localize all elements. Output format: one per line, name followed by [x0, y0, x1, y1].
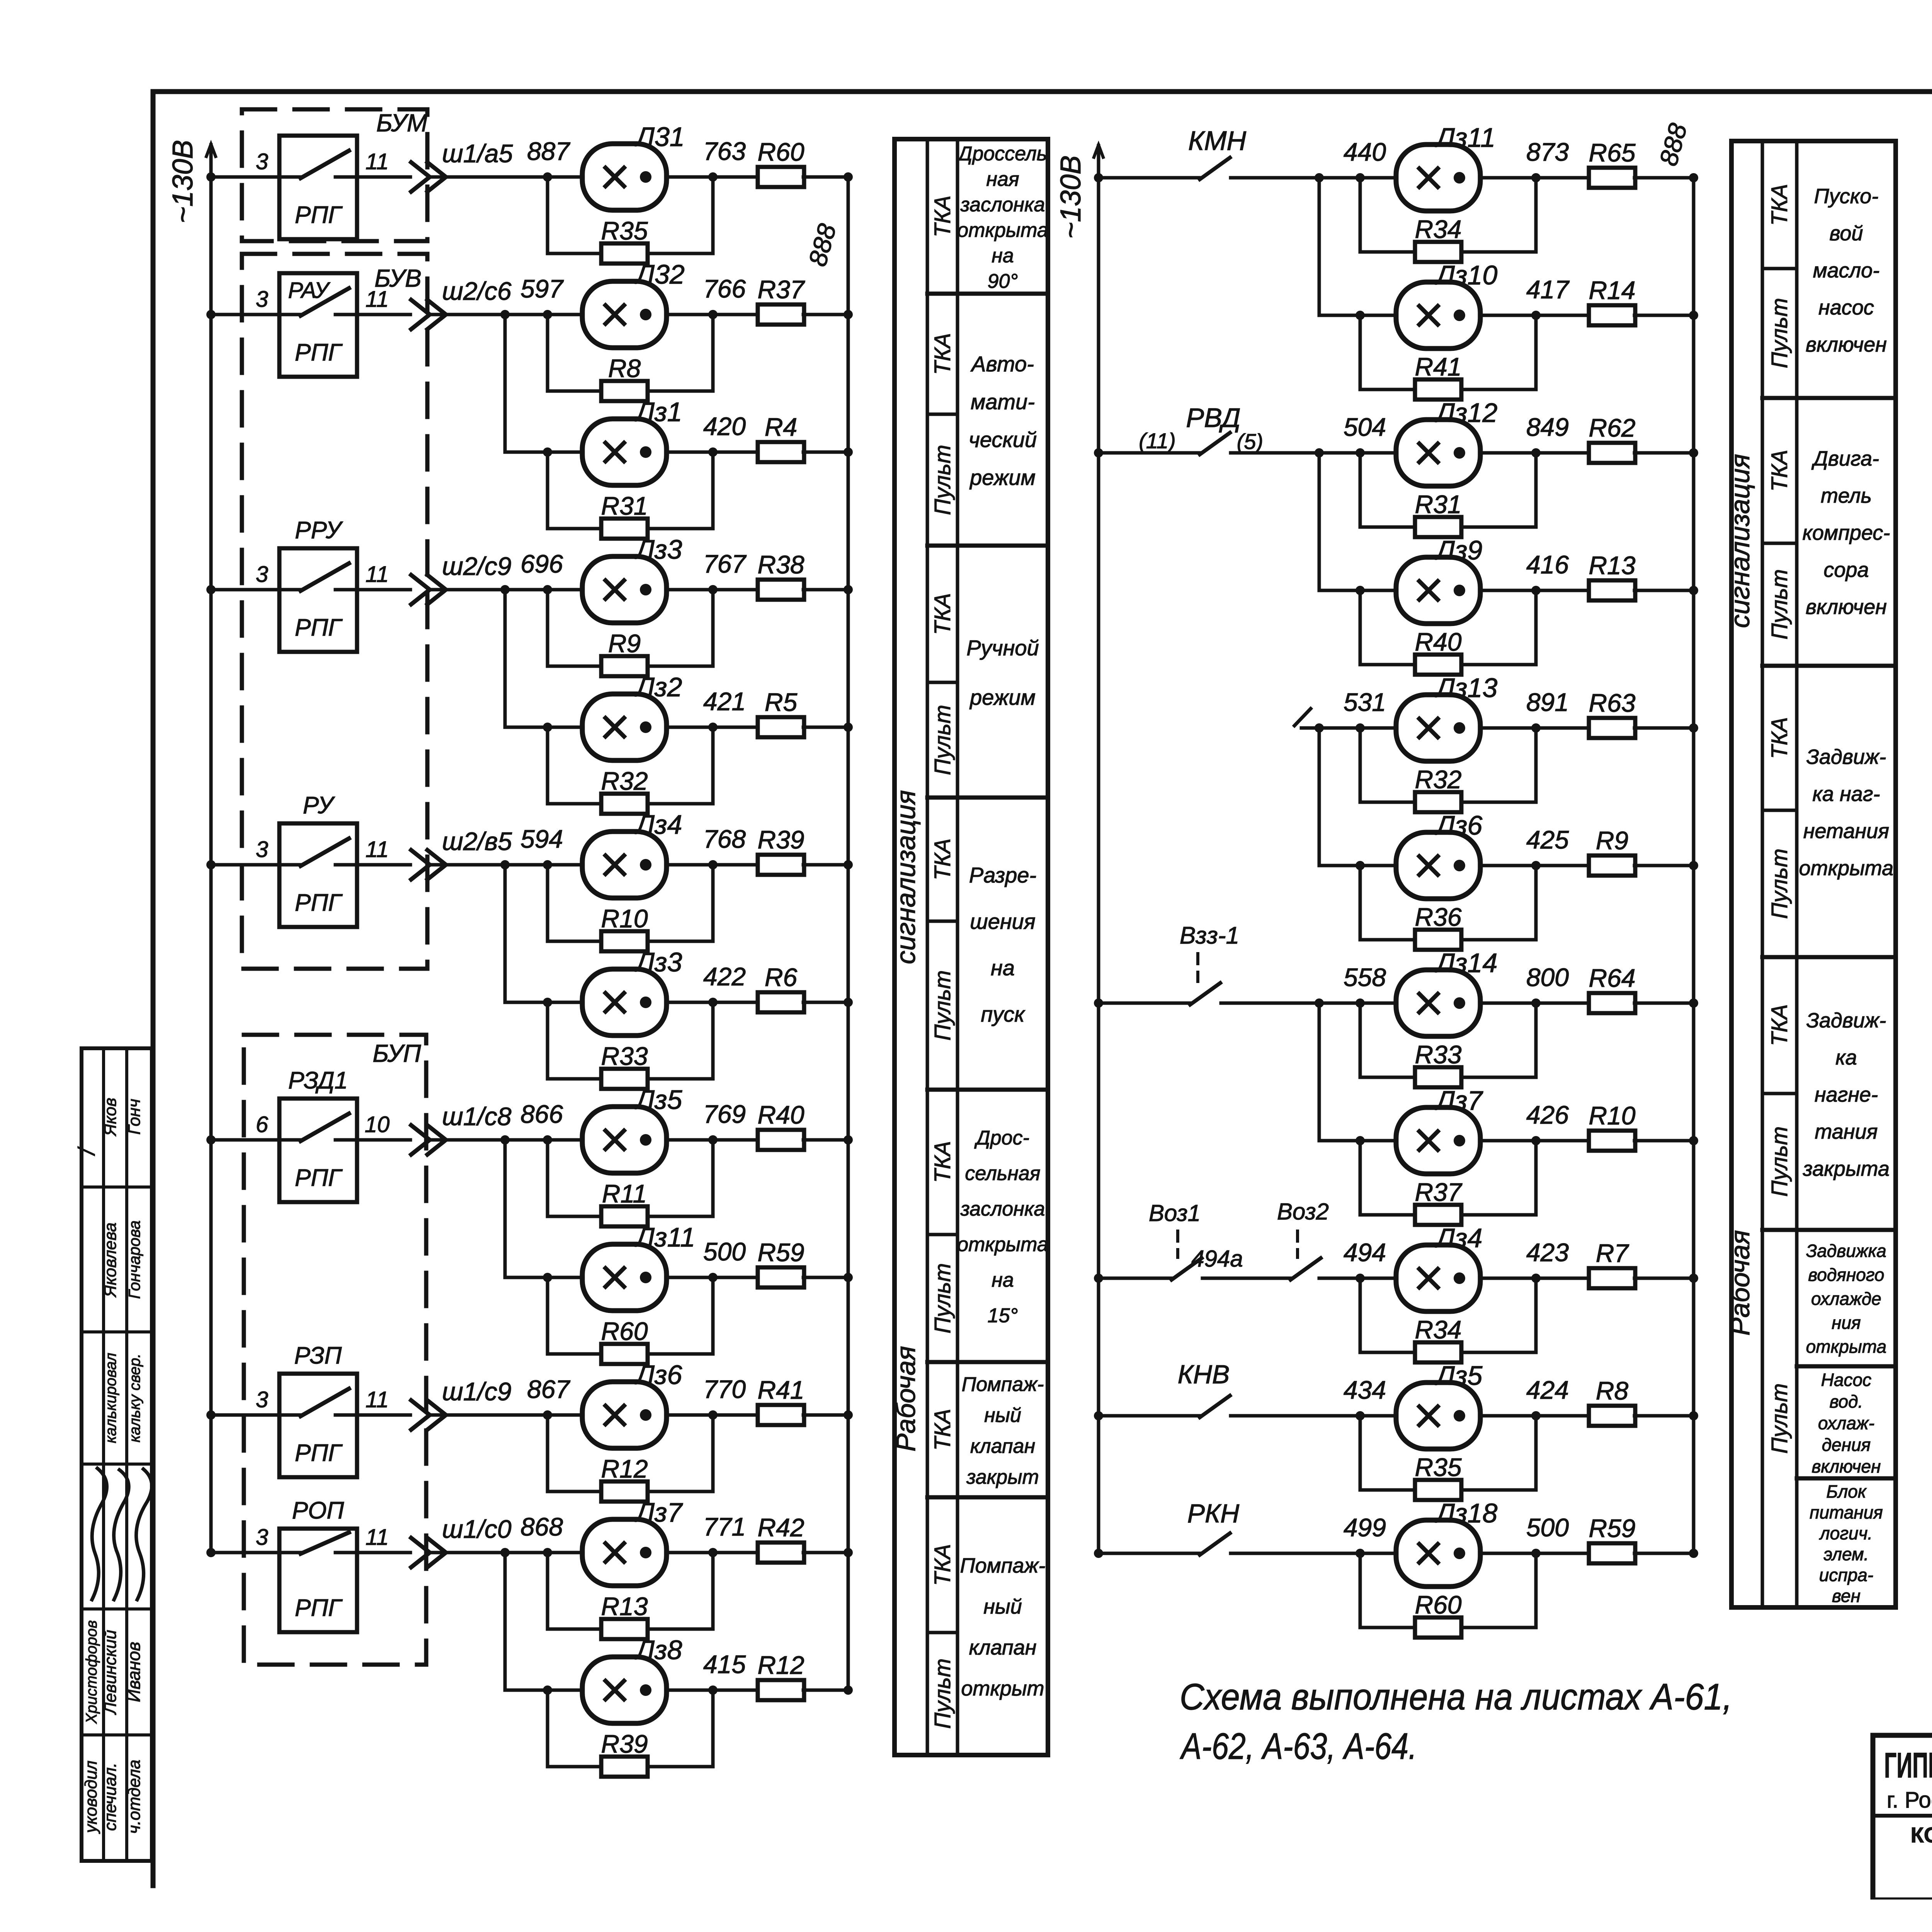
svg-text:закрыта: закрыта [1803, 1157, 1889, 1180]
svg-text:ш2/с9: ш2/с9 [442, 552, 512, 580]
svg-text:R60: R60 [601, 1317, 648, 1345]
resistor R35 parallel loop [1360, 1416, 1416, 1490]
svg-text:водяного: водяного [1808, 1265, 1884, 1285]
svg-text:R10: R10 [1588, 1101, 1635, 1130]
wire resistor to bus [803, 726, 848, 729]
svg-text:ТКА: ТКА [1767, 450, 1792, 492]
svg-text:РВД: РВД [1186, 403, 1240, 433]
svg-text:426: 426 [1526, 1100, 1569, 1129]
svg-text:90°: 90° [988, 270, 1018, 293]
left row Лз7: wires [211, 1551, 279, 1554]
svg-text:R33: R33 [601, 1042, 648, 1070]
signature squiggles [92, 1468, 107, 1600]
relay contact РУ [279, 823, 357, 927]
resistor R8 series [1589, 1406, 1635, 1426]
svg-text:R41: R41 [1415, 352, 1461, 381]
wire resistor to bus [803, 1413, 848, 1417]
svg-text:Лз18: Лз18 [1435, 1498, 1497, 1528]
resistor R36 parallel loop [1360, 866, 1416, 940]
svg-text:РЗД1: РЗД1 [288, 1067, 348, 1094]
svg-text:R11: R11 [602, 1179, 647, 1208]
svg-text:R60: R60 [757, 138, 804, 166]
svg-text:Лз5: Лз5 [1435, 1361, 1483, 1391]
svg-text:кальку свер.: кальку свер. [126, 1354, 143, 1442]
svg-text:режим: режим [969, 685, 1036, 709]
connector chevron ш2/в5 [411, 850, 430, 879]
svg-text:Христофоров: Христофоров [83, 1620, 100, 1724]
svg-text:11: 11 [366, 837, 389, 862]
svg-text:767: 767 [703, 549, 747, 578]
wire lamp to resistor [666, 1413, 759, 1417]
svg-text:3: 3 [256, 562, 268, 587]
wire lamp to resistor [666, 451, 759, 454]
junction node [1315, 173, 1324, 182]
svg-text:849: 849 [1526, 413, 1569, 441]
left row Лз2: wires [505, 726, 548, 729]
svg-text:ТКА: ТКА [930, 1544, 955, 1586]
resistor R34 parallel loop [1360, 178, 1416, 252]
svg-text:11: 11 [366, 562, 389, 587]
svg-text:ТКА: ТКА [930, 196, 955, 237]
wire lamp to resistor [1480, 1002, 1590, 1005]
svg-text:ш1/с9: ш1/с9 [442, 1377, 512, 1406]
svg-text:Левинский: Левинский [101, 1630, 120, 1715]
middle row Лз4: feed wiring [1094, 1274, 1103, 1283]
resistor R10 series [1589, 1131, 1635, 1151]
svg-text:компрес-: компрес- [1803, 521, 1890, 544]
lamp Лз1 [582, 419, 667, 485]
svg-text:охлаж-: охлаж- [1818, 1413, 1874, 1433]
wire drop to next row [1318, 453, 1321, 590]
junction node [1315, 448, 1324, 457]
svg-text:867: 867 [527, 1375, 570, 1403]
svg-text:ка: ка [1835, 1046, 1857, 1069]
svg-text:R64: R64 [1588, 964, 1635, 992]
svg-text:РПГ: РПГ [295, 1595, 343, 1621]
svg-text:868: 868 [520, 1512, 563, 1541]
switch RVD [1196, 451, 1200, 455]
svg-text:10: 10 [365, 1112, 390, 1137]
svg-text:Лз11: Лз11 [634, 1222, 695, 1252]
svg-text:R37: R37 [757, 275, 805, 304]
relay contact РРУ [279, 548, 357, 652]
resistor R40 series [758, 1130, 804, 1150]
wire resistor to bus [803, 1276, 848, 1279]
svg-text:Рабочая: Рабочая [891, 1346, 921, 1451]
svg-text:Задвижка: Задвижка [1806, 1241, 1886, 1261]
resistor R13 series [1589, 580, 1635, 600]
lamp Лз4 [582, 832, 667, 898]
svg-text:11: 11 [366, 149, 389, 174]
svg-text:R40: R40 [1415, 628, 1461, 656]
svg-text:769: 769 [703, 1100, 746, 1128]
svg-text:ш1/с0: ш1/с0 [442, 1515, 512, 1543]
resistor R59 series [758, 1267, 804, 1287]
svg-text:425: 425 [1526, 825, 1569, 854]
svg-text:500: 500 [703, 1237, 746, 1266]
left row Лз5: wires [211, 1138, 279, 1142]
wire drop to next row [503, 1140, 507, 1277]
svg-text:R12: R12 [601, 1454, 648, 1483]
wire lamp to resistor [666, 1001, 759, 1004]
left row Лз8: wires [505, 1689, 548, 1692]
svg-text:Двига-: Двига- [1811, 447, 1879, 470]
svg-text:Лз13: Лз13 [1435, 673, 1497, 703]
wire lamp to resistor [666, 726, 759, 729]
svg-text:~130В: ~130В [167, 140, 199, 223]
svg-text:тания: тания [1815, 1120, 1878, 1143]
svg-text:ТКА: ТКА [930, 1141, 955, 1183]
lamp Лз18 [1396, 1520, 1480, 1587]
resistor R33 parallel loop [1360, 1003, 1416, 1077]
svg-text:891: 891 [1526, 688, 1569, 716]
wire lamp to resistor [666, 313, 759, 316]
wire resistor to bus [1634, 314, 1694, 317]
middle row Лз11: feed wiring [1094, 173, 1103, 182]
junction node [500, 310, 510, 319]
svg-text:Пульт: Пульт [1767, 1383, 1792, 1454]
svg-text:R6: R6 [765, 963, 798, 992]
resistor R59 series [1589, 1543, 1635, 1563]
svg-text:421: 421 [703, 687, 746, 716]
svg-text:нетания: нетания [1803, 820, 1889, 843]
svg-text:открыта: открыта [957, 1233, 1048, 1256]
wire drop to next row [503, 1553, 507, 1690]
middle row Лз10: feed wiring [1319, 314, 1396, 317]
cell Пульт [1762, 542, 1797, 545]
svg-text:R7: R7 [1596, 1239, 1629, 1267]
svg-text:шения: шения [970, 909, 1036, 934]
resistor R31 parallel loop [1360, 453, 1416, 527]
wire lamp to resistor [1480, 314, 1590, 317]
lamp Лз11 [582, 1244, 667, 1311]
resistor R33 parallel loop [548, 1002, 602, 1079]
svg-text:Задвиж-: Задвиж- [1806, 1009, 1886, 1032]
svg-text:Л31: Л31 [634, 122, 685, 152]
svg-text:R33: R33 [1415, 1040, 1461, 1069]
cell Пульт [927, 413, 957, 416]
svg-text:Лз14: Лз14 [1435, 948, 1497, 978]
svg-text:открыта: открыта [957, 219, 1048, 241]
lamp Лз5 [582, 1107, 667, 1173]
wire resistor to bus [1634, 1002, 1694, 1005]
svg-text:531: 531 [1344, 688, 1386, 716]
connector chevron ш2/с6 [411, 300, 430, 329]
bus 888 middle [1692, 178, 1696, 1553]
cell Пульт [927, 1233, 957, 1236]
svg-text:597: 597 [520, 274, 564, 303]
dashed block BUP [244, 1035, 426, 1665]
middle row Лз7: feed wiring [1319, 1139, 1396, 1143]
svg-text:Лз5: Лз5 [634, 1085, 683, 1115]
svg-text:сора: сора [1823, 558, 1869, 582]
svg-text:Лз3: Лз3 [634, 534, 682, 565]
resistor R14 series [1589, 305, 1635, 325]
dashed block BUM [242, 109, 427, 241]
svg-text:Разре-: Разре- [969, 863, 1036, 887]
resistor R12 series [758, 1680, 804, 1700]
junction node [500, 1135, 510, 1145]
svg-text:R35: R35 [1415, 1453, 1461, 1481]
wire lamp to resistor [1480, 864, 1590, 867]
svg-text:Рабочая: Рабочая [1725, 1230, 1755, 1335]
svg-text:3: 3 [256, 1525, 268, 1550]
middle row Лз18: feed wiring [1094, 1549, 1103, 1558]
svg-text:ТКА: ТКА [1767, 1004, 1792, 1046]
svg-text:R12: R12 [757, 1651, 804, 1679]
svg-text:6: 6 [256, 1112, 269, 1137]
svg-text:тель: тель [1821, 484, 1872, 507]
svg-text:11: 11 [366, 287, 389, 312]
middle row Лз9: feed wiring [1319, 589, 1396, 592]
svg-text:элем.: элем. [1824, 1544, 1869, 1564]
svg-text:Авто-: Авто- [970, 352, 1034, 376]
cell Пульт [1762, 809, 1797, 812]
svg-text:R59: R59 [757, 1238, 804, 1267]
junction node [500, 1548, 510, 1557]
svg-text:РПГ: РПГ [295, 339, 343, 366]
svg-text:766: 766 [703, 274, 746, 303]
resistor R32 parallel loop [548, 727, 602, 804]
wire resistor to bus [1634, 726, 1694, 730]
svg-text:РПГ: РПГ [295, 1165, 343, 1191]
wire lamp to resistor [666, 1551, 759, 1554]
wire resistor to bus [1634, 176, 1694, 180]
wire lamp to resistor [666, 1689, 759, 1692]
svg-text:R32: R32 [1415, 765, 1461, 794]
svg-text:РУ: РУ [303, 792, 335, 819]
svg-text:424: 424 [1526, 1376, 1569, 1404]
resistor R32 parallel loop [1360, 728, 1416, 802]
power rail ~130V middle [1097, 178, 1100, 1553]
svg-text:R31: R31 [601, 492, 648, 520]
svg-text:Лз6: Лз6 [634, 1360, 682, 1390]
junction node [500, 860, 510, 869]
switch RKN [1196, 1552, 1200, 1555]
junction node [500, 585, 510, 594]
resistor R9 parallel loop [548, 590, 602, 666]
svg-text:R62: R62 [1588, 413, 1635, 442]
svg-text:ч.отдела: ч.отдела [125, 1760, 144, 1834]
svg-text:R4: R4 [765, 413, 797, 441]
svg-text:Лз11: Лз11 [1435, 122, 1495, 153]
middle row Лз6: feed wiring [1319, 864, 1396, 867]
resistor R42 series [758, 1543, 804, 1563]
relay contact РПГ [279, 136, 357, 239]
svg-text:открыт: открыт [961, 1677, 1044, 1700]
lamp Лз7 [582, 1519, 667, 1586]
svg-text:R59: R59 [1588, 1514, 1635, 1543]
switch Voz1 [1168, 1277, 1172, 1280]
svg-text:R35: R35 [601, 216, 648, 245]
svg-text:R31: R31 [1415, 490, 1461, 519]
switch Voz2 [1287, 1277, 1291, 1280]
svg-text:г. Ростов-на-Дону 1976г.: г. Ростов-на-Дону 1976г. [1887, 1787, 1932, 1813]
svg-text:494а: 494а [1191, 1246, 1243, 1272]
sheet border frame left [151, 92, 156, 1886]
svg-text:Помпаж-: Помпаж- [962, 1373, 1044, 1396]
resistor R6 series [758, 992, 804, 1012]
svg-text:3: 3 [256, 837, 268, 862]
svg-text:ния: ния [1832, 1313, 1861, 1333]
svg-text:заслонка: заслонка [960, 1198, 1045, 1220]
wire resistor to bus [1634, 1414, 1694, 1418]
middle row Лз5: feed wiring [1094, 1411, 1103, 1420]
resistor R37 parallel loop [1360, 1141, 1416, 1215]
wire resistor to bus [803, 1551, 848, 1554]
svg-text:ческий: ческий [969, 427, 1037, 452]
wire resistor to bus [803, 451, 848, 454]
svg-text:R63: R63 [1588, 689, 1635, 717]
svg-text:873: 873 [1526, 138, 1569, 166]
svg-text:R9: R9 [608, 629, 641, 658]
resistor R12 parallel loop [548, 1415, 602, 1492]
svg-text:R5: R5 [765, 688, 798, 716]
switch Vzz-1 [1186, 1002, 1190, 1005]
svg-text:открыта: открыта [1799, 857, 1894, 880]
svg-text:Лз7: Лз7 [634, 1497, 684, 1527]
wire resistor to bus [803, 863, 848, 867]
svg-text:/: / [74, 1146, 100, 1156]
svg-text:ш2/в5: ш2/в5 [442, 827, 512, 855]
resistor R62 series [1589, 443, 1635, 463]
title block frame [1873, 1735, 1932, 1900]
relay contact РОП [279, 1529, 357, 1632]
svg-text:БУП: БУП [372, 1039, 421, 1067]
svg-text:(11): (11) [1139, 429, 1175, 453]
svg-text:вод.: вод. [1830, 1391, 1863, 1412]
svg-text:423: 423 [1526, 1238, 1569, 1267]
svg-text:калькировал: калькировал [102, 1353, 119, 1443]
svg-text:763: 763 [703, 137, 746, 165]
resistor R10 parallel loop [548, 865, 602, 941]
lamp Лз7 [1396, 1107, 1480, 1174]
svg-text:434: 434 [1344, 1376, 1386, 1404]
cell Пульт [927, 1631, 957, 1634]
svg-text:клапан: клапан [970, 1435, 1035, 1458]
lamp Л31 [582, 144, 667, 210]
svg-text:охлажде: охлажде [1811, 1289, 1881, 1309]
resistor R31 parallel loop [548, 452, 602, 529]
resistor R64 series [1589, 993, 1635, 1013]
svg-text:Дрос-: Дрос- [974, 1127, 1029, 1149]
left row Лз11: wires [505, 1276, 548, 1279]
svg-text:закрыт: закрыт [966, 1466, 1039, 1488]
svg-text:Пульт: Пульт [930, 1263, 955, 1333]
svg-text:КОМПРЕССОРНАЯ: КОМПРЕССОРНАЯ [1911, 1823, 1932, 1847]
left row Л32: wires [211, 313, 279, 316]
wire lamp to resistor [1480, 1277, 1590, 1280]
svg-text:сельная: сельная [965, 1162, 1040, 1185]
svg-text:Дроссель: Дроссель [956, 143, 1047, 165]
resistor R60 parallel loop [548, 1277, 602, 1354]
cell Пульт [1762, 267, 1797, 270]
svg-text:Яков: Яков [101, 1098, 120, 1136]
svg-text:Гонч: Гонч [125, 1099, 144, 1135]
dashed block BUV [242, 254, 427, 969]
left row Л31: wires [211, 175, 279, 179]
left row Лз6: wires [211, 1413, 279, 1417]
svg-text:режим: режим [969, 465, 1036, 490]
left row Лз3: wires [211, 588, 279, 592]
svg-text:нагне-: нагне- [1815, 1083, 1878, 1106]
svg-text:558: 558 [1344, 963, 1386, 992]
svg-text:Лз7: Лз7 [1435, 1085, 1484, 1116]
svg-text:ТКА: ТКА [1767, 717, 1792, 759]
svg-text:ТКА: ТКА [930, 838, 955, 880]
wire lamp to resistor [1480, 1139, 1590, 1143]
junction node [1315, 723, 1324, 733]
resistor R41 series [758, 1405, 804, 1425]
svg-text:включен: включен [1806, 595, 1887, 619]
svg-text:Лз8: Лз8 [634, 1635, 682, 1665]
wire lamp to resistor [1480, 176, 1590, 180]
svg-text:ш1/с8: ш1/с8 [442, 1102, 512, 1131]
svg-text:Пульт: Пульт [1767, 1126, 1792, 1197]
svg-text:Пуско-: Пуско- [1814, 185, 1879, 208]
svg-text:открыта: открыта [1806, 1337, 1886, 1357]
svg-text:R40: R40 [757, 1100, 804, 1129]
svg-text:Пульт: Пульт [930, 970, 955, 1041]
svg-text:R13: R13 [1588, 551, 1635, 580]
svg-text:Лз4: Лз4 [1435, 1223, 1482, 1253]
svg-text:масло-: масло- [1813, 259, 1880, 282]
svg-text:ТКА: ТКА [930, 593, 955, 635]
svg-text:R41: R41 [757, 1376, 804, 1404]
resistor R38 series [758, 580, 804, 600]
resistor R5 series [758, 717, 804, 737]
lamp Лз9 [1396, 557, 1480, 624]
svg-text:Задвиж-: Задвиж- [1806, 745, 1886, 769]
svg-text:R60: R60 [1415, 1590, 1461, 1619]
svg-text:ГИПРОСТРОЙДОРМАШ: ГИПРОСТРОЙДОРМАШ [1884, 1745, 1932, 1785]
resistor R60 series [758, 167, 804, 187]
svg-text:R32: R32 [601, 767, 648, 795]
wire lamp to resistor [1480, 1552, 1590, 1555]
svg-text:770: 770 [703, 1375, 746, 1403]
svg-text:Пульт: Пульт [1767, 849, 1792, 919]
lamp Лз2 [582, 694, 667, 760]
cell Пульт [927, 681, 957, 684]
signature table frame [82, 1048, 152, 1861]
switch KMN [1196, 176, 1200, 180]
svg-text:R65: R65 [1588, 138, 1635, 167]
svg-text:РПГ: РПГ [295, 614, 343, 641]
svg-text:Схема выполнена на листах: Схема выполнена на листах А-61, [1180, 1676, 1732, 1718]
svg-text:РКН: РКН [1187, 1499, 1240, 1528]
lamp Лз3 [582, 969, 667, 1036]
svg-text:Помпаж-: Помпаж- [960, 1554, 1045, 1577]
svg-text:866: 866 [520, 1100, 563, 1128]
scan crop bottom [0, 1900, 1932, 1932]
svg-text:ная: ная [986, 168, 1019, 190]
resistor R34 parallel loop [1360, 1278, 1416, 1352]
lamp Лз13 [1396, 695, 1480, 761]
svg-text:Яковлева: Яковлева [101, 1223, 120, 1298]
svg-text:(5): (5) [1237, 429, 1263, 454]
svg-text:ный: ный [983, 1595, 1022, 1618]
svg-text:РПГ: РПГ [295, 202, 343, 228]
wire lamp to resistor [666, 175, 759, 179]
svg-text:800: 800 [1526, 963, 1569, 992]
svg-text:Лз3: Лз3 [634, 947, 682, 977]
wire drop to next row [1318, 1003, 1321, 1141]
lamp Лз14 [1396, 970, 1480, 1036]
lamp Л32 [582, 281, 667, 348]
middle row Лз12: feed wiring [1094, 448, 1103, 457]
svg-text:500: 500 [1526, 1513, 1569, 1542]
connector chevron ш1/с9 [411, 1400, 430, 1430]
